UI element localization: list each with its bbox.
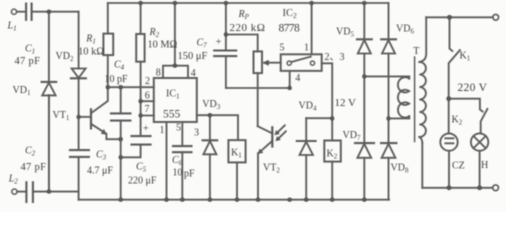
svg-text:+: + [216,37,222,48]
svg-text:2、3: 2、3 [325,52,345,63]
svg-text:8: 8 [156,67,161,78]
svg-text:12 V: 12 V [335,97,357,109]
svg-text:10 pF: 10 pF [105,74,129,85]
svg-text:220 μF: 220 μF [128,176,157,187]
svg-text:2: 2 [145,76,150,87]
svg-text:1: 1 [304,43,309,54]
svg-text:6: 6 [145,91,150,102]
svg-text:4: 4 [295,73,300,84]
svg-text:8778: 8778 [279,23,300,35]
svg-text:4.7 μF: 4.7 μF [87,166,113,177]
svg-text:1: 1 [160,125,165,136]
svg-text:47 pF: 47 pF [15,56,41,67]
svg-text:3: 3 [194,128,199,139]
svg-text:H: H [481,160,488,171]
svg-text:10: 10 [173,168,183,179]
svg-text:CZ: CZ [452,161,465,172]
svg-text:+: + [143,124,149,135]
svg-text:220 kΩ: 220 kΩ [230,22,266,34]
svg-text:10 MΩ: 10 MΩ [148,40,178,51]
svg-text:220 V: 220 V [458,82,488,94]
svg-text:150 μF: 150 μF [178,51,208,62]
svg-text:4: 4 [191,68,196,79]
svg-text:T: T [413,46,419,57]
svg-text:7: 7 [145,104,150,115]
svg-text:5: 5 [176,123,181,134]
svg-text:pF: pF [184,168,195,179]
svg-text:5: 5 [280,43,285,54]
svg-text:555: 555 [163,109,181,121]
svg-text:10 kΩ: 10 kΩ [78,46,104,57]
svg-text:47 pF: 47 pF [21,162,47,173]
